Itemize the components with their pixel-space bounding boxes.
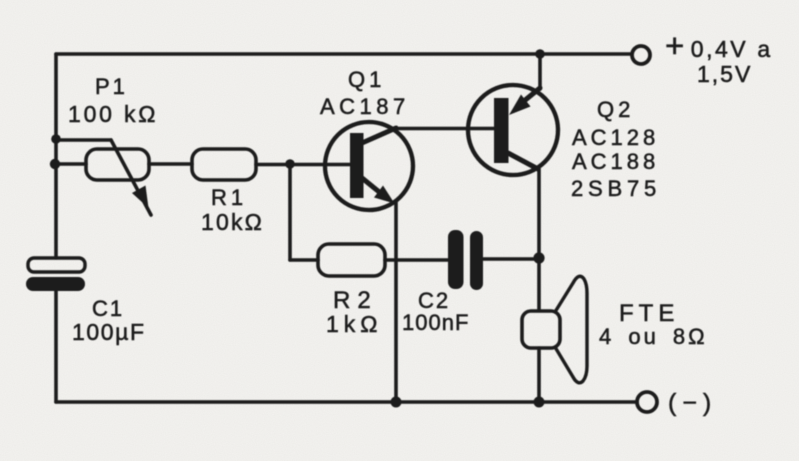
svg-text:Q1: Q1 (348, 67, 385, 92)
capacitor C2 right plate (470, 231, 483, 290)
transistor Q1 emitter arrowhead (374, 186, 395, 204)
svg-text:1,5V: 1,5V (697, 61, 752, 87)
svg-text:AC188: AC188 (572, 149, 659, 174)
svg-text:100nF: 100nF (402, 310, 469, 335)
svg-text:R2: R2 (333, 287, 378, 314)
wire R1 to Q1 base (256, 163, 350, 167)
wire speaker to bottom rail (537, 348, 541, 402)
node junction dot bottom (speaker) (534, 397, 545, 408)
capacitor C2 left plate (448, 230, 464, 289)
node junction dot collector/C2 (533, 252, 544, 263)
wire Q2 collector down (537, 169, 541, 310)
svg-text:AC187: AC187 (320, 94, 410, 119)
wire Q2 emitter up to rail (538, 54, 542, 89)
svg-text:2SB75: 2SB75 (571, 176, 661, 201)
terminal + (top right) (632, 46, 650, 64)
svg-text:AC128: AC128 (572, 125, 659, 150)
capacitor C1 top plate (28, 258, 85, 272)
wire C2 to junction (483, 257, 539, 261)
wire R2 to C2 (385, 258, 450, 262)
svg-text:100µF: 100µF (72, 319, 146, 345)
node junction dot top rail (535, 49, 545, 59)
capacitor C1 bottom plate (26, 277, 85, 291)
wire P1 wiper horizontal (56, 138, 111, 142)
wire Q1 emitter down (394, 203, 398, 402)
transistor Q2 circle (468, 85, 558, 175)
svg-text:R1: R1 (211, 185, 247, 210)
transistor Q1 circle (325, 122, 413, 210)
transistor Q2 emitter diagonal (524, 88, 540, 101)
node junction dot bottom (emitter) (391, 397, 402, 408)
wire to R2 left (290, 258, 318, 262)
transistor Q2 emitter arrowhead (PNP) (509, 95, 531, 116)
speaker FTE frame (522, 311, 560, 348)
svg-text:Q2: Q2 (597, 97, 634, 122)
transistor Q1 emitter diagonal (362, 178, 383, 195)
wire bottom rail (56, 400, 637, 404)
wire left rail lower (vertical) (54, 291, 58, 402)
node junction dot lower-left (main input) (50, 159, 60, 169)
resistor R2 (318, 244, 385, 276)
transistor Q1 collector diagonal (362, 128, 396, 143)
wire P1 wiper diagonal (111, 140, 151, 215)
terminal - (bottom right) (637, 392, 657, 412)
wire Q1 collector to Q2 base (396, 127, 494, 131)
speaker FTE cone (555, 276, 587, 383)
node junction dot upper-left (P1 wiper tap) (51, 134, 61, 144)
transistor Q2 collector diagonal (508, 153, 538, 169)
svg-text:FTE: FTE (619, 300, 679, 327)
transistor Q2 base bar (494, 98, 509, 163)
wire junction down to R2 (288, 164, 292, 260)
wire P1 to R1 (149, 162, 192, 166)
svg-text:10kΩ: 10kΩ (201, 209, 264, 235)
svg-text:(−): (−) (668, 389, 717, 417)
svg-text:100 kΩ: 100 kΩ (68, 101, 158, 127)
wire left rail (vertical) (54, 54, 58, 258)
wire dot2 to P1 (55, 162, 86, 166)
resistor R1 (192, 149, 256, 180)
svg-text:C1: C1 (92, 296, 124, 321)
svg-text:1kΩ: 1kΩ (326, 311, 383, 337)
node junction dot base of Q1 (285, 159, 295, 169)
transistor Q1 base bar (350, 133, 364, 198)
svg-text:P1: P1 (95, 74, 128, 99)
svg-text:4 ou 8Ω: 4 ou 8Ω (599, 324, 708, 349)
potentiometer P1 body (86, 149, 149, 180)
potentiometer P1 wiper arrowhead (132, 186, 149, 209)
wire top rail (56, 52, 631, 56)
